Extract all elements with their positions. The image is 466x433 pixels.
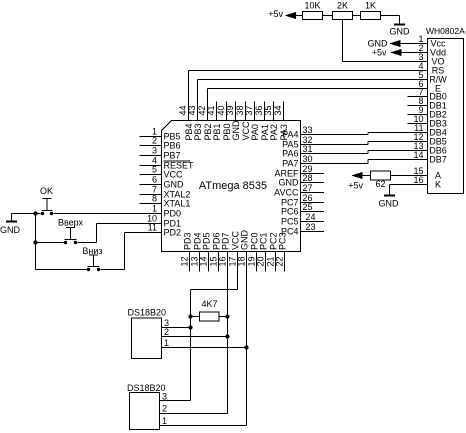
resistor R1 10K <box>303 12 323 20</box>
svg-text:VCC: VCC <box>164 170 184 180</box>
svg-text:GND: GND <box>164 180 185 190</box>
svg-text:28: 28 <box>303 173 313 183</box>
svg-text:DS18B20: DS18B20 <box>127 383 166 393</box>
svg-text:+5v: +5v <box>268 9 283 19</box>
wire PD1 net <box>97 223 162 225</box>
node vcc/4K7 junction <box>188 314 192 318</box>
pin 22 PC3 (IC bottom) <box>284 252 286 272</box>
pin 39 GND (IC top) <box>235 102 237 121</box>
pin 40 PB0 (IC top) <box>226 102 228 121</box>
svg-text:PB7: PB7 <box>164 151 181 161</box>
pin 3 U2 <box>162 327 191 329</box>
svg-text:31: 31 <box>303 144 313 154</box>
svg-text:DS18B20: DS18B20 <box>128 308 167 318</box>
pin 20 PC1 (IC bottom) <box>265 252 267 272</box>
svg-text:DB7: DB7 <box>429 155 447 165</box>
pin 19 PC0 (IC bottom) <box>256 252 258 272</box>
svg-text:PC5: PC5 <box>281 217 299 227</box>
connector J1 WH0802A LCD body <box>428 39 464 194</box>
pin 27 AVCC (IC right) <box>301 192 325 194</box>
svg-text:33: 33 <box>303 125 313 135</box>
svg-text:GND: GND <box>279 178 300 188</box>
pin 38 VCC (IC top) <box>245 102 247 121</box>
resistor R3 1K <box>361 12 381 20</box>
svg-text:1: 1 <box>164 338 169 348</box>
svg-text:XTAL1: XTAL1 <box>164 199 191 209</box>
pin 35 PA2 (IC top) <box>273 102 275 121</box>
svg-text:2K: 2K <box>337 1 348 11</box>
svg-text:PA7: PA7 <box>282 159 298 169</box>
svg-text:AVCC: AVCC <box>274 188 299 198</box>
pin 26 PC7 (IC right) <box>301 202 325 204</box>
wire PA6 to DB6 <box>301 153 369 155</box>
svg-text:PB1: PB1 <box>212 123 222 140</box>
node vcc/sensor1 junction <box>188 325 192 329</box>
pin 34 PA3 (IC top) <box>283 102 285 121</box>
pin 2 U2 <box>162 336 228 338</box>
svg-text:3: 3 <box>152 146 157 156</box>
pin 8 DB1 (LCD) <box>408 105 428 107</box>
svg-text:PD2: PD2 <box>164 228 182 238</box>
svg-text:PA2: PA2 <box>269 124 279 140</box>
svg-text:12: 12 <box>180 256 190 266</box>
pin 10 DB3 (LCD) <box>408 123 428 125</box>
pin 7 DB0 (LCD) <box>408 96 428 98</box>
svg-text:24: 24 <box>306 212 316 222</box>
svg-text:+5v: +5v <box>372 48 387 58</box>
svg-text:ATmega 8535: ATmega 8535 <box>199 180 267 192</box>
svg-text:27: 27 <box>303 183 313 193</box>
pin 41 PB1 (IC top) <box>216 102 218 121</box>
pin 3 U3 <box>160 400 191 402</box>
svg-text:20: 20 <box>256 256 266 266</box>
svg-text:3: 3 <box>162 392 167 402</box>
svg-text:PA4: PA4 <box>282 130 298 140</box>
pin 12 PD3 (IC bottom) <box>189 252 191 272</box>
pin 14 PD5 (IC bottom) <box>208 252 210 272</box>
svg-text:25: 25 <box>303 202 313 212</box>
svg-text:GND: GND <box>0 225 21 235</box>
svg-text:30: 30 <box>303 154 313 164</box>
svg-text:+5v: +5v <box>348 181 363 191</box>
+5v supply arrow (top) <box>285 12 297 19</box>
wire PD2 net <box>125 232 162 234</box>
svg-text:PB6: PB6 <box>164 141 181 151</box>
svg-text:62: 62 <box>375 179 385 189</box>
svg-text:PA0: PA0 <box>250 124 260 140</box>
svg-text:23: 23 <box>306 222 316 232</box>
resistor R2 2K contrast pot <box>333 12 353 20</box>
wire PD0 net <box>53 213 161 215</box>
wire PA5 to DB5 <box>301 144 369 146</box>
svg-text:39: 39 <box>225 105 235 115</box>
svg-text:5: 5 <box>152 165 157 175</box>
wire R/W to pin 43 <box>198 79 428 81</box>
svg-text:4K7: 4K7 <box>201 299 217 309</box>
ground (top right) <box>399 16 401 25</box>
pin 15 PD6 (IC bottom) <box>218 252 220 272</box>
node PD1/bus junction <box>33 240 37 244</box>
svg-text:22: 22 <box>275 256 285 266</box>
pin 24 PC5 (IC right) <box>301 221 325 223</box>
svg-text:GND: GND <box>240 230 250 251</box>
svg-text:37: 37 <box>244 105 254 115</box>
svg-text:1: 1 <box>152 204 157 214</box>
svg-text:1: 1 <box>162 416 167 426</box>
pin 1 PB5 (IC left) <box>140 136 162 138</box>
node gnd/sensor1 junction <box>244 345 248 349</box>
ground (LCD pin 16 K) <box>390 184 428 186</box>
pin 6 GND (IC left) <box>140 184 162 186</box>
pin 13 PD4 (IC bottom) <box>199 252 201 272</box>
wire VO contrast tap <box>342 20 344 62</box>
svg-text:GND: GND <box>390 27 411 37</box>
pin 4 RESET (IC left) <box>140 165 162 167</box>
ground (buttons) <box>11 214 13 222</box>
pin 2 U3 <box>160 413 228 415</box>
wire VCC net to sensors <box>237 252 239 290</box>
resistor R4 62 (backlight) <box>391 175 428 177</box>
pin 1 U3 <box>160 425 247 427</box>
svg-text:2: 2 <box>162 404 167 414</box>
pin 23 PC4 (IC right) <box>301 231 325 233</box>
pin 37 PA0 (IC top) <box>254 102 256 121</box>
svg-text:PD5: PD5 <box>202 232 212 250</box>
svg-text:GND: GND <box>231 120 241 141</box>
pin 7 XTAL2 (IC left) <box>140 194 162 196</box>
svg-text:34: 34 <box>273 105 283 115</box>
pin 29 AREF (IC right) <box>301 173 325 175</box>
svg-text:PD7: PD7 <box>221 232 231 250</box>
pin 25 PC6 (IC right) <box>301 211 325 213</box>
svg-text:16: 16 <box>218 256 228 266</box>
svg-text:16: 16 <box>413 175 423 185</box>
svg-text:PD0: PD0 <box>164 209 182 219</box>
svg-text:14: 14 <box>199 256 209 266</box>
+5v arrow (LCD pin 2 Vdd) <box>400 52 428 54</box>
svg-text:2: 2 <box>164 327 169 337</box>
svg-text:PD3: PD3 <box>183 232 193 250</box>
svg-text:6: 6 <box>152 175 157 185</box>
svg-text:14: 14 <box>413 150 423 160</box>
svg-text:WH0802A-: WH0802A- <box>426 26 466 36</box>
pin 5 VCC (IC left) <box>140 174 162 176</box>
pin 21 PC2 (IC bottom) <box>275 252 277 272</box>
pin 2 PB6 (IC left) <box>140 145 162 147</box>
svg-text:10K: 10K <box>304 1 320 11</box>
wire E to pin 42 <box>208 88 428 90</box>
svg-text:PC6: PC6 <box>281 207 299 217</box>
wire GND net to sensors <box>246 252 248 426</box>
wire RS to pin 44 <box>189 70 428 72</box>
svg-text:K: K <box>435 180 441 190</box>
wire data net PD7 <box>227 252 229 414</box>
svg-text:PB3: PB3 <box>193 123 203 140</box>
wire button bus <box>35 214 37 270</box>
pin 9 DB2 (LCD) <box>408 114 428 116</box>
svg-text:GND: GND <box>379 199 400 209</box>
wire PA4 to DB4 <box>301 134 369 136</box>
ground arrow (LCD pin 1 Vcc) <box>401 43 428 45</box>
pin 28 GND (IC right) <box>301 182 325 184</box>
svg-text:2: 2 <box>152 136 157 146</box>
IC U1 ATmega 8535 microcontroller <box>162 121 301 252</box>
node PD0/bus junction <box>33 211 37 215</box>
+5v arrow (backlight) <box>351 172 363 179</box>
svg-text:8: 8 <box>152 194 157 204</box>
wire PA7 to DB7 <box>301 163 369 165</box>
node data/4K7 junction <box>225 314 229 318</box>
pin 8 XTAL1 (IC left) <box>140 203 162 205</box>
svg-text:PC1: PC1 <box>259 232 269 250</box>
node data/sensor1 junction <box>225 334 229 338</box>
pin 36 PA1 (IC top) <box>264 102 266 121</box>
svg-text:1K: 1K <box>365 1 376 11</box>
pin 3 PB7 (IC left) <box>140 155 162 157</box>
svg-text:PC3: PC3 <box>278 232 288 250</box>
svg-text:Вверх: Вверх <box>58 218 84 228</box>
svg-text:35: 35 <box>263 105 273 115</box>
svg-text:OK: OK <box>40 186 53 196</box>
svg-text:PA6: PA6 <box>282 149 298 159</box>
